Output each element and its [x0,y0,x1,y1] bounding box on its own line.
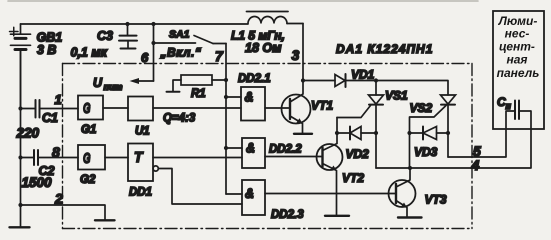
ground (VT2) [325,215,349,217]
svg-text:2: 2 [54,191,63,207]
svg-text:VS2: VS2 [410,101,433,115]
svg-text:8: 8 [52,144,60,160]
svg-text:цент-: цент- [499,40,535,54]
wire top supply rail [21,23,304,26]
thyristor VS2 [410,95,456,168]
battery GB1 [10,24,31,109]
ground (VT3) [398,216,422,218]
svg-text:0,1 мк: 0,1 мк [71,46,108,60]
transistor VT1 [282,81,311,134]
svg-text:1: 1 [55,92,62,107]
svg-text:VT3: VT3 [425,193,447,207]
ground (left rail) [10,226,30,228]
wire DD2.2 out to VT2 [265,156,323,158]
panel text [497,14,540,80]
svg-text:VD2: VD2 [346,147,370,161]
svg-text:3: 3 [292,47,300,63]
capacitor C2 [21,150,79,165]
ground (pin 2) [95,219,115,221]
svg-text:нес-: нес- [505,27,530,41]
pin 4 wire [376,111,531,168]
svg-text:G2: G2 [80,174,96,186]
svg-text:R1: R1 [191,88,206,100]
svg-text:18 Ом: 18 Ом [245,41,282,55]
wire U1-DD2.1 [153,107,241,109]
svg-text:&: & [246,140,255,156]
node 6 wire (pin 6) [153,24,155,81]
trigger DD1 [128,144,153,182]
dashed box DA1 [63,64,473,229]
wire VD1 to VS2 anode [376,81,448,96]
gate DD2.2 [242,138,265,168]
svg-text:DD2.1: DD2.1 [238,73,271,85]
wire node7 to DD2.3 input [226,193,242,195]
wire node7 to DD2.1 input [226,96,241,98]
wire DD1 inverted out to DD2.3 [158,169,242,205]
capacitor Cн [515,101,519,120]
svg-text:U: U [93,76,103,90]
capacitor C3 [119,24,137,49]
thyristor VS1 [337,81,384,169]
inductor L1 [247,12,289,24]
block U1 [128,97,153,121]
svg-text:U1: U1 [135,126,150,138]
transistor VT3 [389,168,416,217]
svg-text:C3: C3 [97,29,113,43]
svg-text:VD1: VD1 [351,68,375,82]
svg-text:DA1 К1224ПН1: DA1 К1224ПН1 [336,42,433,56]
oscillator G1 [78,96,103,120]
svg-text:1500: 1500 [22,175,53,190]
svg-text:6: 6 [141,50,149,65]
switch SA1 [154,36,227,44]
svg-text:DD2.3: DD2.3 [271,209,304,221]
svg-text:3 В: 3 В [37,43,56,57]
svg-text:DD2.2: DD2.2 [269,144,302,156]
svg-text:&: & [245,185,254,201]
svg-text:7: 7 [215,48,224,64]
ground (VT1) [294,133,312,135]
gate DD2.3 [242,180,265,215]
node 3 wire (pin 3) [302,24,304,81]
capacitor C1 [21,100,79,118]
node 7 wire (pin 7) [225,44,227,195]
resistor R1 [167,75,227,92]
svg-text:панель: панель [497,66,540,80]
transistor VT2 [317,118,343,216]
svg-text:VD3: VD3 [414,145,438,159]
luminescent panel box [493,11,544,129]
diode VD3 [410,127,449,140]
wire G1-U1 [103,107,128,109]
svg-text:ная: ная [507,53,528,67]
wire node7 to DD2.2 input [226,147,242,149]
svg-text:DD1: DD1 [129,187,152,199]
svg-text:н: н [506,101,512,111]
svg-text:C1: C1 [42,111,58,125]
gate DD2.1 [241,87,265,121]
diode VD1 [303,74,376,87]
svg-text:G: G [83,100,91,117]
svg-text:220: 220 [16,126,40,141]
oscillator G2 [78,145,105,170]
svg-text:VT1: VT1 [311,99,333,113]
wire DD1-DD2.2 [153,157,242,159]
wire DD2.1 out to VT1 [265,107,290,109]
svg-text:SA1: SA1 [169,29,190,41]
svg-text:&: & [245,89,254,105]
svg-text:VS1: VS1 [385,89,408,103]
svg-text:G1: G1 [81,124,96,136]
wire DD2.3 out to VT3 [265,193,396,195]
wire G2-DD1 [105,157,128,159]
left rail wire [20,50,22,227]
svg-text:4: 4 [471,157,480,173]
diode VD2 [337,127,376,140]
svg-text:пит: пит [104,82,123,92]
svg-text:Q=4:3: Q=4:3 [163,113,196,125]
Uпит arrow [136,80,154,82]
svg-text:VT2: VT2 [342,171,364,185]
pin 5 wire [448,111,515,157]
pin 2 wire [21,205,106,220]
svg-text:„Вкл.“: „Вкл.“ [160,46,202,60]
svg-text:G: G [83,150,91,167]
